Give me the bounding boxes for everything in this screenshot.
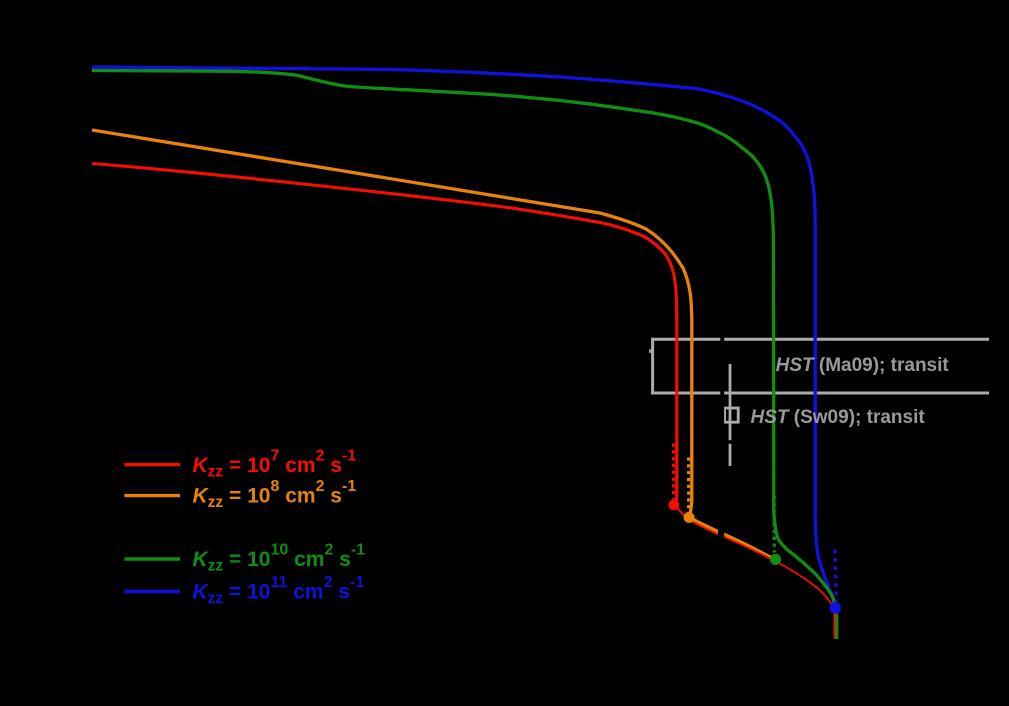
green curve Kzz=1e10: [92, 71, 837, 640]
gray HST Ma09 box bottom edge: [651, 392, 989, 395]
black dashed overlay line punching gaps: [720, 335, 724, 545]
black break on Sw09 bar: [728, 440, 732, 444]
red thin deep diagonal: [675, 506, 835, 639]
orange quench dot: [684, 512, 695, 523]
gray Sw09 vertical error bar: [729, 364, 732, 466]
red curve Kzz=1e7: [92, 164, 677, 504]
black dash gap on deep diagonal: [718, 528, 724, 541]
blue dotted quench segment: [835, 550, 837, 602]
red dotted quench segment: [672, 444, 675, 500]
gray HST Ma09 box top edge: [651, 338, 989, 341]
legend blue line: [124, 590, 180, 593]
svg-text:HST (Sw09); transit: HST (Sw09); transit: [751, 407, 926, 428]
green quench dot: [770, 554, 781, 565]
legend green line: [124, 557, 180, 560]
orange curve Kzz=1e8: [92, 130, 779, 562]
legend orange line: [124, 494, 180, 497]
blue curve Kzz=1e11: [92, 67, 836, 639]
gray Sw09 open square: [725, 408, 739, 422]
gray HST Ma09 box left edge: [651, 338, 654, 395]
red quench dot: [668, 500, 679, 511]
svg-text:HST (Ma09); transit: HST (Ma09); transit: [776, 355, 950, 376]
legend red line: [124, 463, 180, 466]
orange dotted quench segment: [687, 458, 690, 511]
green dotted quench segment: [773, 496, 776, 553]
blue quench dot: [830, 602, 842, 614]
gray stub tick left of box: [649, 349, 654, 353]
